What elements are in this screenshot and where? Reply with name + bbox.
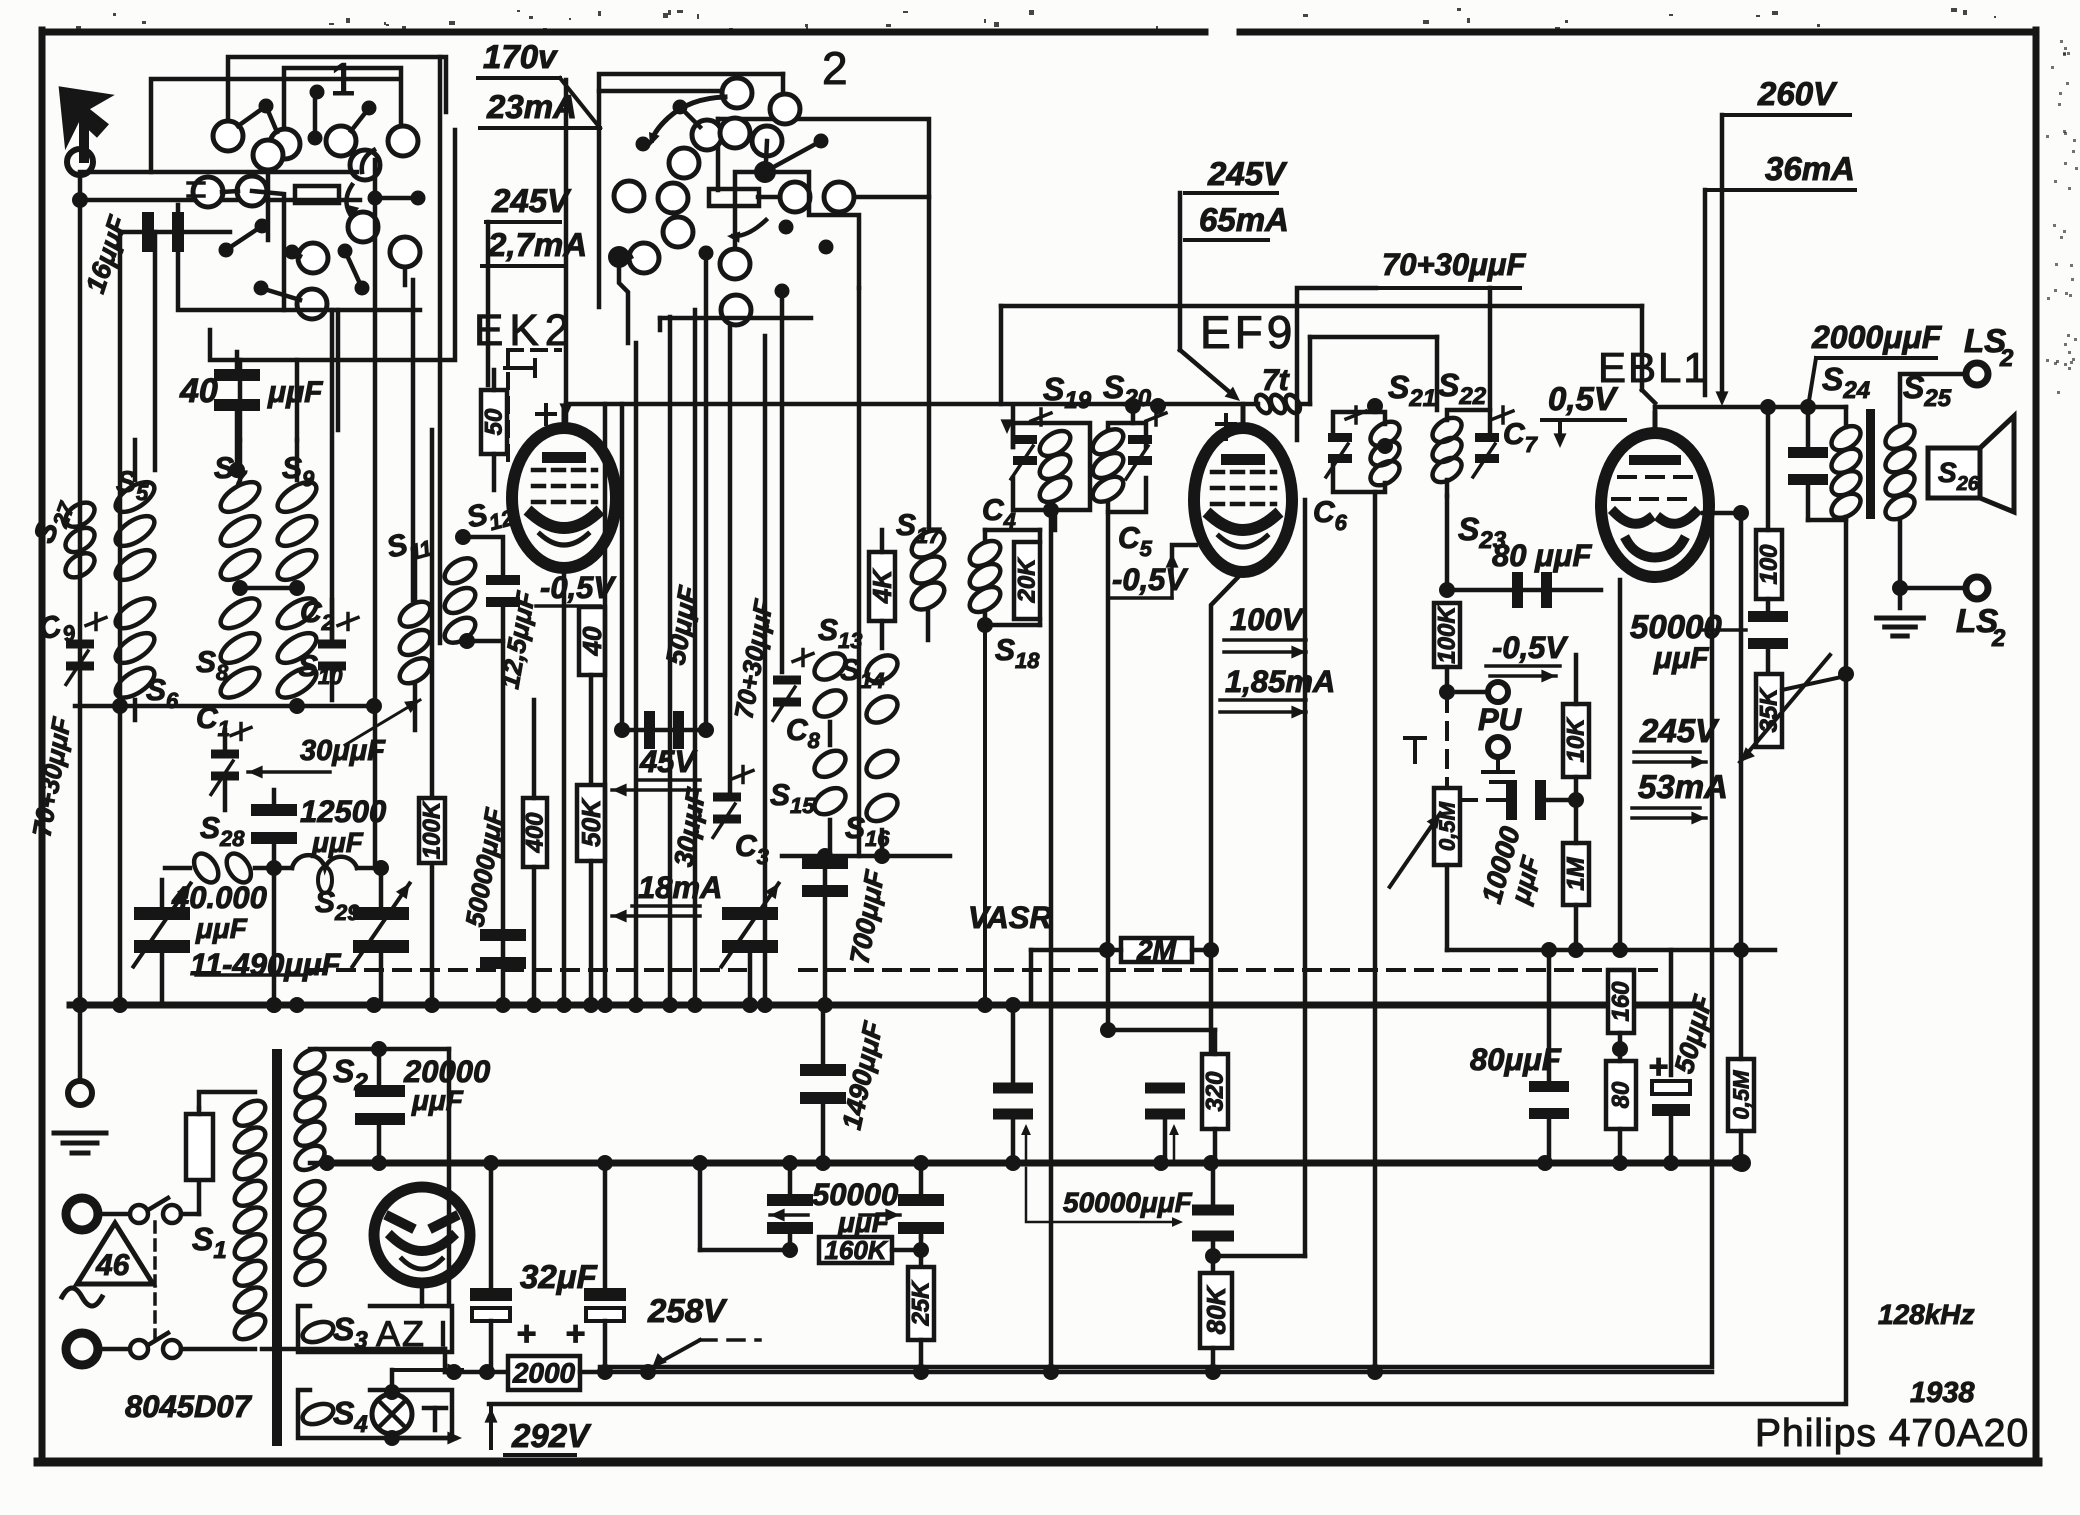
svg-text:100K: 100K xyxy=(1434,605,1461,664)
svg-text:100: 100 xyxy=(1756,544,1783,585)
svg-text:EF9: EF9 xyxy=(1200,306,1296,358)
svg-text:160K: 160K xyxy=(824,1235,888,1265)
svg-text:160: 160 xyxy=(1608,981,1635,1022)
svg-text:100V: 100V xyxy=(1230,602,1305,637)
svg-text:40: 40 xyxy=(179,372,218,410)
svg-text:μμF: μμF xyxy=(1653,642,1709,675)
svg-text:μμF: μμF xyxy=(195,913,248,944)
svg-text:20000: 20000 xyxy=(403,1054,490,1089)
svg-text:50000μμF: 50000μμF xyxy=(1063,1187,1193,1218)
svg-text:1938: 1938 xyxy=(1910,1377,1975,1409)
svg-text:+: + xyxy=(516,1315,536,1353)
svg-text:2,7mA: 2,7mA xyxy=(487,226,587,263)
svg-text:65mA: 65mA xyxy=(1199,201,1289,238)
svg-text:40.000: 40.000 xyxy=(171,880,267,915)
svg-text:1: 1 xyxy=(330,53,356,105)
svg-text:170v: 170v xyxy=(483,38,558,75)
svg-text:VASR: VASR xyxy=(968,900,1052,935)
svg-text:20K: 20K xyxy=(1014,557,1041,604)
svg-text:+: + xyxy=(565,1315,585,1353)
svg-text:-0,5V: -0,5V xyxy=(1492,630,1568,665)
svg-text:50000: 50000 xyxy=(1630,608,1722,645)
svg-text:245V: 245V xyxy=(1639,712,1720,749)
svg-text:2000: 2000 xyxy=(512,1358,576,1389)
svg-text:EBL1: EBL1 xyxy=(1598,344,1709,391)
svg-text:100K: 100K xyxy=(419,800,446,859)
svg-text:36mA: 36mA xyxy=(1765,150,1855,187)
svg-text:46: 46 xyxy=(95,1249,130,1282)
svg-text:292V: 292V xyxy=(511,1417,592,1454)
svg-text:10K: 10K xyxy=(1563,717,1590,763)
svg-text:320: 320 xyxy=(1202,1071,1229,1112)
svg-text:50K: 50K xyxy=(576,797,606,847)
svg-text:50: 50 xyxy=(481,408,508,435)
svg-text:8045D07: 8045D07 xyxy=(125,1389,253,1424)
svg-text:80K: 80K xyxy=(1201,1284,1231,1334)
svg-text:7t: 7t xyxy=(1262,364,1291,397)
svg-text:0,5M: 0,5M xyxy=(1729,1070,1754,1120)
svg-text:40: 40 xyxy=(577,626,607,656)
svg-text:2000μμF: 2000μμF xyxy=(1811,319,1943,355)
svg-text:80 μμF: 80 μμF xyxy=(1492,538,1592,573)
svg-text:0,5M: 0,5M xyxy=(1435,801,1460,851)
svg-text:μμF: μμF xyxy=(311,827,364,858)
svg-text:Philips 470A20: Philips 470A20 xyxy=(1755,1412,2029,1455)
svg-text:2: 2 xyxy=(1999,345,2014,372)
svg-text:1M: 1M xyxy=(1563,856,1590,890)
svg-text:μμF: μμF xyxy=(837,1207,890,1238)
svg-text:80: 80 xyxy=(1608,1081,1635,1108)
svg-text:1,85mA: 1,85mA xyxy=(1225,664,1335,699)
svg-text:53mA: 53mA xyxy=(1638,768,1728,805)
svg-text:245V: 245V xyxy=(491,182,572,219)
svg-text:400: 400 xyxy=(522,812,549,854)
svg-text:128kHz: 128kHz xyxy=(1878,1299,1975,1330)
svg-text:245V: 245V xyxy=(1207,155,1288,192)
svg-text:PU: PU xyxy=(1478,702,1523,737)
svg-text:260V: 260V xyxy=(1757,75,1838,112)
svg-text:258V: 258V xyxy=(647,1292,728,1329)
svg-text:25K: 25K xyxy=(908,1280,935,1327)
svg-text:2M: 2M xyxy=(1136,935,1177,966)
svg-text:μμF: μμF xyxy=(411,1085,464,1116)
svg-text:EK2: EK2 xyxy=(474,306,575,355)
svg-text:18mA: 18mA xyxy=(638,870,722,905)
svg-text:23mA: 23mA xyxy=(486,88,577,125)
svg-text:70+30μμF: 70+30μμF xyxy=(1382,247,1526,282)
svg-text:2: 2 xyxy=(1991,625,2006,652)
svg-text:2: 2 xyxy=(822,42,848,94)
svg-text:4K: 4K xyxy=(867,568,897,604)
